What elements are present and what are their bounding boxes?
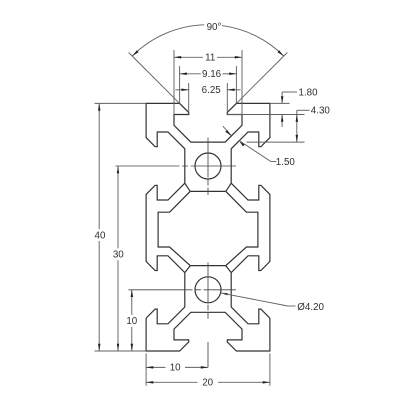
svg-text:10: 10 (170, 363, 181, 374)
horizontal centerline lower hole (also ext for 10) (129, 289, 237, 291)
svg-text:11: 11 (205, 53, 215, 64)
extension line bottom-right corner (269, 354, 271, 386)
svg-text:4.30: 4.30 (311, 106, 331, 117)
hole lower (diameter 4.20) (195, 277, 221, 303)
dimension 40 (profile height) (95, 103, 106, 351)
extension line lip underside (227, 114, 304, 116)
dimension 4.30 (slot depth) (296, 106, 331, 143)
profile outer outline (20x40 V-slot extrusion cross-section) (146, 103, 270, 351)
dimension 9.16 (V opening width) (180, 66, 237, 103)
web connector lower-right (226, 266, 231, 273)
dimension 10 (half width) (146, 363, 208, 374)
leader 1.50 (web thickness) (223, 126, 296, 168)
svg-text:30: 30 (113, 250, 124, 261)
svg-text:40: 40 (95, 230, 106, 241)
leader diameter 4.20 (hole) (220, 293, 324, 313)
svg-text:1.50: 1.50 (276, 157, 296, 168)
svg-text:10: 10 (126, 316, 137, 327)
vertical centerline upper hole (207, 138, 209, 196)
web connector upper-left (185, 183, 190, 191)
svg-text:6.25: 6.25 (202, 85, 222, 96)
vertical centerline lower hole (207, 263, 209, 319)
hole upper (diameter 4.20) (195, 153, 221, 179)
extension line top face right (270, 102, 290, 104)
dimension 6.25 (slot opening width) (176, 83, 241, 112)
extension line top face left (95, 102, 147, 104)
extension line bottom-left corner (145, 354, 147, 386)
horizontal centerline upper hole (also ext for 30) (116, 165, 237, 167)
svg-text:20: 20 (202, 378, 213, 389)
dimension 30 (upper hole height) (113, 166, 124, 351)
dimension 11 (slot inner width) (174, 50, 242, 115)
angle dimension 90deg (129, 22, 288, 103)
vertical centerline bottom ext (207, 342, 209, 368)
web connector upper-right (226, 183, 231, 191)
svg-text:Ø4.20: Ø4.20 (297, 302, 324, 313)
extension line slot bottom (247, 141, 305, 143)
svg-text:9.16: 9.16 (202, 69, 222, 80)
center cavity octagon (158, 191, 258, 265)
dimension 1.80 (lip depth) (281, 87, 318, 127)
dimension 20 (profile width) (146, 378, 270, 389)
dimension 10 (lower hole height) (126, 290, 137, 351)
svg-text:1.80: 1.80 (299, 87, 319, 98)
svg-text:90°: 90° (207, 22, 222, 33)
web connector lower-left (185, 266, 190, 273)
extension line bottom face left (95, 350, 147, 352)
